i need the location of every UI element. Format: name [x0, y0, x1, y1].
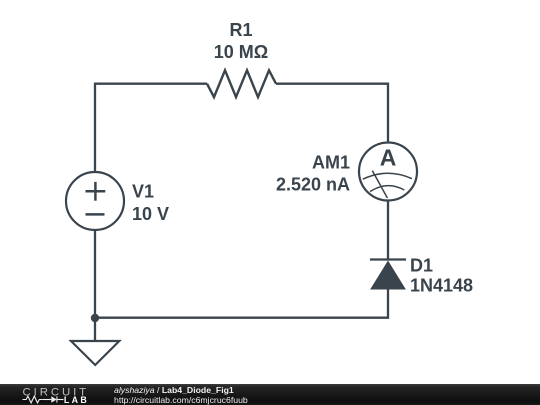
svg-text:10 V: 10 V: [132, 204, 169, 224]
svg-text:AM1: AM1: [312, 152, 350, 172]
svg-text:R1: R1: [229, 20, 252, 40]
svg-text:V1: V1: [132, 182, 154, 202]
svg-text:1N4148: 1N4148: [410, 276, 473, 296]
svg-text:D1: D1: [410, 256, 433, 276]
svg-text:2.520 nA: 2.520 nA: [276, 174, 350, 194]
svg-text:LAB: LAB: [64, 395, 89, 405]
svg-text:10 MΩ: 10 MΩ: [214, 42, 268, 62]
svg-text:A: A: [380, 145, 397, 171]
